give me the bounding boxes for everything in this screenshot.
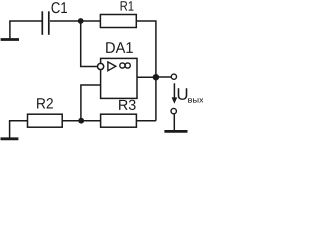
inversion circle op-amp input [98, 63, 104, 69]
wire input to C1 [9, 20, 41, 22]
infinity symbol inside DA1 [120, 63, 131, 68]
label вых [188, 98, 203, 102]
op-amp DA1 body [101, 58, 137, 98]
wire output to terminal [156, 76, 171, 78]
wire C1 to R1 [50, 20, 101, 22]
node junction output [153, 74, 159, 80]
label R2 [37, 98, 53, 108]
wire non-inverting branch [81, 85, 101, 121]
resistor R2 [28, 114, 63, 127]
output terminal circle top [171, 74, 176, 79]
triangle symbol inside DA1 [108, 62, 116, 71]
wire op-amp output [137, 76, 156, 78]
lower terminal ground [164, 114, 187, 131]
arrow U out [172, 83, 178, 104]
lower terminal circle [171, 108, 176, 113]
wire R1 to right rail [136, 21, 156, 121]
wire R2 to R3 [62, 120, 100, 122]
label C1 [52, 2, 68, 13]
label DA1 [106, 42, 133, 53]
input terminal ground bar top-left [1, 21, 19, 40]
resistor R1 [100, 15, 136, 28]
wire ground to R2 [9, 120, 28, 122]
node junction top (C1/R1/inverting branch) [78, 18, 84, 24]
label R1 [121, 1, 134, 10]
resistor R3 [101, 114, 137, 127]
wire inverting branch [81, 21, 98, 67]
label U [178, 88, 188, 100]
label R3 [119, 100, 136, 110]
wire R3 to right rail [136, 120, 156, 122]
ground bar bottom-left [1, 121, 19, 139]
node junction bottom (R2/R3/non-inverting branch) [78, 118, 84, 124]
capacitor C1 [42, 11, 49, 35]
